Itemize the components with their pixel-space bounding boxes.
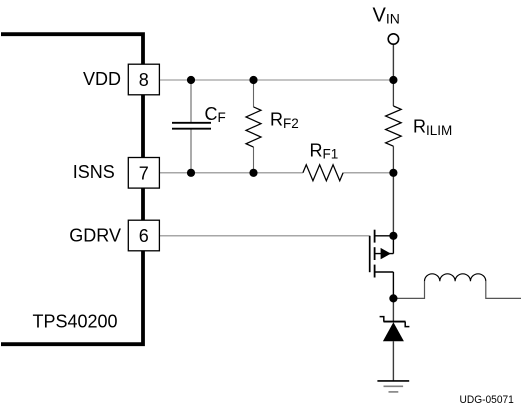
pin 7 box bbox=[128, 158, 159, 189]
wire RILIM top lead bbox=[392, 80, 394, 106]
svg-text:VIN: VIN bbox=[373, 5, 400, 27]
wire RILIM node to MOSFET drain bbox=[392, 173, 394, 236]
svg-text:6: 6 bbox=[139, 226, 149, 246]
svg-text:GDRV: GDRV bbox=[69, 226, 121, 246]
node junction dot H (switch node) bbox=[389, 294, 397, 302]
inductor L1 bbox=[425, 274, 486, 281]
node junction dot F (RILIM bottom) bbox=[389, 169, 397, 177]
node junction dot A (CF top) bbox=[187, 76, 195, 84]
wire inductor to output bbox=[486, 281, 521, 298]
node junction dot C (VIN) bbox=[389, 76, 397, 84]
svg-text:RF1: RF1 bbox=[310, 140, 339, 161]
resistor RF1 bbox=[303, 165, 343, 181]
wire pin6 GDRV to gate bbox=[160, 235, 370, 237]
wire CF top lead bbox=[190, 80, 192, 123]
wire VIN terminal drop bbox=[392, 44, 394, 80]
wire node to diode cathode bbox=[392, 298, 394, 321]
node junction dot D (CF bottom) bbox=[187, 169, 195, 177]
ground bbox=[377, 381, 409, 392]
svg-text:RF2: RF2 bbox=[270, 110, 299, 132]
resistor RILIM bbox=[386, 106, 402, 146]
pin 6 box bbox=[128, 220, 159, 251]
wire pin8 to VIN node bbox=[160, 79, 394, 81]
svg-text:VDD: VDD bbox=[83, 69, 121, 89]
diode D1 Schottky bbox=[380, 317, 410, 342]
svg-text:8: 8 bbox=[139, 70, 149, 90]
pin 8 box bbox=[128, 64, 159, 95]
wire diode anode to ground bbox=[392, 341, 394, 381]
wire RF2 top lead bbox=[253, 80, 255, 107]
resistor RF2 bbox=[246, 107, 261, 147]
wire pin7 ISNS to RF1 bbox=[160, 172, 303, 174]
capacitor CF bbox=[172, 123, 211, 129]
svg-text:CF: CF bbox=[205, 104, 226, 125]
svg-text:RILIM: RILIM bbox=[413, 117, 452, 138]
wire switch node to inductor bbox=[393, 281, 424, 298]
VIN terminal circle bbox=[388, 34, 398, 44]
wire RILIM bottom lead bbox=[392, 146, 394, 173]
svg-text:7: 7 bbox=[139, 163, 149, 183]
svg-text:ISNS: ISNS bbox=[73, 162, 115, 182]
node junction dot E (RF2 bottom) bbox=[249, 169, 257, 177]
svg-text:UDG-05071: UDG-05071 bbox=[460, 394, 514, 406]
IC U1 TPS40200 outline bbox=[1, 34, 143, 344]
node junction dot B (RF2 top) bbox=[249, 76, 257, 84]
wire RF2 bottom lead bbox=[253, 147, 255, 173]
svg-text:TPS40200: TPS40200 bbox=[33, 311, 118, 331]
wire RF1 to RILIM node bbox=[343, 172, 393, 174]
node junction dot G (drain/body) bbox=[389, 232, 397, 240]
transistor Q1 P-channel MOSFET bbox=[370, 230, 394, 299]
wire CF bottom lead bbox=[190, 129, 192, 173]
